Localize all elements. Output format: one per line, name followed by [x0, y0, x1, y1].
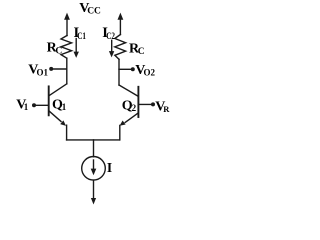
label IC2	[102, 25, 115, 41]
svg-text:C2: C2	[106, 31, 115, 41]
svg-text:1: 1	[24, 102, 29, 112]
label VR	[155, 100, 170, 115]
wire: left supply arrow to VCC	[64, 13, 70, 36]
label IC1	[74, 25, 87, 41]
label Q1	[52, 97, 67, 112]
wire: left collector branch vertical	[66, 58, 68, 84]
label V1	[16, 97, 29, 112]
svg-text:C: C	[55, 46, 62, 56]
Q2 emitter diagonal with arrowhead	[125, 113, 138, 122]
wire: right supply arrow to VCC	[118, 13, 124, 35]
svg-text:C1: C1	[77, 31, 86, 41]
wire: bottom arrow to negative supply	[91, 180, 96, 204]
current arrow IC2	[109, 40, 114, 57]
label Q2	[122, 98, 137, 113]
transistor Q1	[49, 84, 67, 126]
Q1 base bar	[48, 86, 50, 115]
svg-text:I: I	[107, 160, 112, 175]
svg-text:R: R	[163, 104, 170, 114]
svg-text:2: 2	[132, 103, 137, 113]
Q2 collector diagonal	[119, 85, 138, 96]
svg-text:O1: O1	[37, 67, 49, 77]
wire: right emitter stub	[119, 125, 121, 139]
svg-text:1: 1	[62, 102, 67, 112]
resistor RC (right)	[115, 35, 126, 60]
svg-text:CC: CC	[87, 7, 101, 17]
svg-text:C: C	[138, 47, 145, 57]
label VO2	[135, 63, 155, 78]
Q1 emitter diagonal with arrowhead	[49, 111, 61, 121]
resistor RC (left)	[61, 36, 72, 59]
label RC (right)	[129, 41, 145, 57]
wire: left emitter stub	[66, 125, 68, 140]
svg-text:O2: O2	[144, 68, 156, 78]
node V1: base wire and dot	[32, 103, 49, 107]
current source I circle	[82, 157, 106, 181]
node VR: base wire and dot	[138, 102, 155, 106]
label VO1	[28, 63, 48, 78]
wire: emitter rail	[67, 139, 120, 141]
node VO2: wire and junction dot	[119, 67, 135, 71]
node VO1: wire and junction dot	[49, 67, 67, 71]
wire: rail to current source	[93, 140, 95, 157]
transistor Q2	[119, 85, 138, 126]
Q2 base bar	[137, 87, 139, 117]
label VCC	[79, 1, 101, 17]
wire: right collector branch vertical	[118, 59, 120, 85]
current arrow IC1	[74, 39, 79, 58]
current source internal down arrow	[91, 160, 97, 175]
Q1 collector diagonal	[49, 84, 66, 96]
label RC (left)	[47, 40, 63, 56]
